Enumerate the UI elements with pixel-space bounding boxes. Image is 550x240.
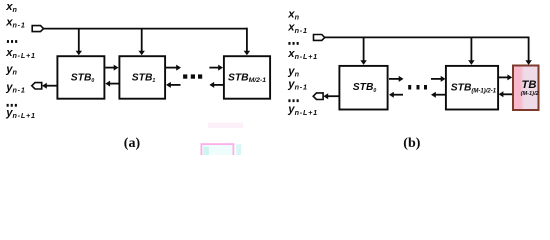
svg-text:STB0: STB0: [353, 82, 377, 94]
ellipsis dots output (a): [7, 104, 9, 107]
arrow STB_(M-1)/2-1 left out (b): [436, 94, 446, 96]
arrow into STB_M/2-1 (a): [209, 67, 219, 69]
wire drop to STB0 (b): [363, 37, 365, 60]
wire drop to STB1 (a): [141, 29, 143, 52]
input terminal (a): [32, 26, 43, 32]
wire drop to STB_M/2-1 (a): [246, 28, 248, 52]
wire drop to TB (b): [528, 37, 530, 61]
output terminal (a): [32, 83, 42, 89]
wire drop to STB0 (a): [78, 29, 80, 52]
block STB_(M-1)/2-1 (b): [446, 66, 498, 110]
svg-text:STB0: STB0: [71, 72, 95, 84]
arrow TB to STB (b): [503, 93, 512, 95]
ellipsis between blocks (a): [183, 74, 187, 78]
ellipsis dots input (a): [7, 40, 9, 43]
arrow STB0 right out (b): [389, 78, 400, 80]
arrow into STB0 from right (b): [394, 94, 404, 96]
arrow STB1 right out (a): [166, 67, 177, 69]
ellipsis between blocks (b): [408, 85, 411, 90]
block STB_M/2-1 (a): [224, 56, 270, 98]
input terminal (b): [314, 35, 325, 41]
arrow into STB1 from right (a): [171, 84, 181, 86]
block STB0 (b): [339, 66, 387, 110]
svg-text:STB1: STB1: [132, 72, 156, 84]
wire: top bus (b): [325, 36, 529, 38]
block STB0 (a): [57, 56, 104, 98]
arrow STB to TB (b): [499, 76, 509, 78]
svg-text:(M-1)/2: (M-1)/2: [521, 91, 540, 97]
svg-text:(b): (b): [403, 136, 420, 151]
block STB1 (a): [119, 56, 165, 98]
wire drop to STB_(M-1)/2-1 (b): [470, 37, 472, 60]
arrow STB_M/2-1 left out (a): [214, 84, 223, 86]
arrow STB0 to STB1 (a): [105, 67, 114, 69]
svg-text:(a): (a): [124, 136, 141, 151]
highlight box artifact: [201, 144, 233, 156]
cyan strip artifact: [236, 144, 241, 155]
svg-text:TB: TB: [522, 79, 537, 91]
arrow STB1 to STB0 (a): [110, 83, 119, 85]
faint pink bar artifact: [208, 123, 243, 129]
arrow into STB_(M-1)/2-1 (b): [431, 78, 442, 80]
wire: top bus (a): [44, 28, 247, 30]
output terminal (b): [313, 93, 323, 100]
ellipsis dots output (b): [288, 99, 290, 102]
ellipsis dots input (b): [288, 42, 290, 45]
wire: y output arrow (a): [46, 85, 56, 87]
wire: y output arrow (b): [328, 95, 339, 97]
